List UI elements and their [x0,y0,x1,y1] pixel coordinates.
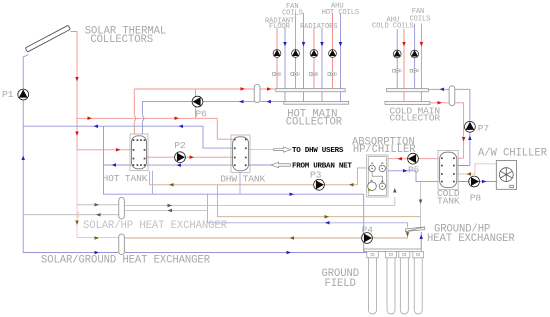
svg-text:P2: P2 [174,140,186,151]
svg-text:SOLAR/HP HEAT EXCHANGER: SOLAR/HP HEAT EXCHANGER [83,220,228,232]
svg-text:A/W CHILLER: A/W CHILLER [478,147,548,159]
svg-text:COILS: COILS [282,10,303,18]
svg-text:COLD COILS: COLD COILS [372,22,414,30]
svg-text:P8: P8 [470,192,482,203]
svg-text:DHW TANK: DHW TANK [220,173,265,184]
svg-text:P5: P5 [408,165,420,176]
svg-text:RADIATORS: RADIATORS [300,23,337,31]
svg-text:COLLECTOR: COLLECTOR [286,117,343,129]
svg-text:P4: P4 [362,225,374,236]
svg-text:P1: P1 [2,89,14,100]
svg-text:HOT TANK: HOT TANK [103,173,148,184]
svg-text:FROM URBAN NET: FROM URBAN NET [292,162,352,170]
svg-text:TO DHW USERS: TO DHW USERS [292,147,344,155]
svg-text:P7: P7 [478,123,489,134]
svg-text:HOT COILS: HOT COILS [322,9,359,17]
svg-text:SOLAR/GROUND HEAT EXCHANGER: SOLAR/GROUND HEAT EXCHANGER [41,254,211,266]
svg-text:FLOOR: FLOOR [269,23,291,31]
svg-text:P3: P3 [310,170,322,181]
svg-text:P6: P6 [196,109,208,120]
svg-text:TANK: TANK [437,196,460,207]
svg-text:HEAT EXCHANGER: HEAT EXCHANGER [427,233,515,245]
svg-text:HP/CHILLER: HP/CHILLER [353,144,416,156]
svg-text:FIELD: FIELD [325,278,356,290]
svg-text:COLLECTORS: COLLECTORS [90,34,153,46]
svg-text:COLLECTOR: COLLECTOR [390,113,441,124]
svg-text:COILS: COILS [410,16,431,24]
